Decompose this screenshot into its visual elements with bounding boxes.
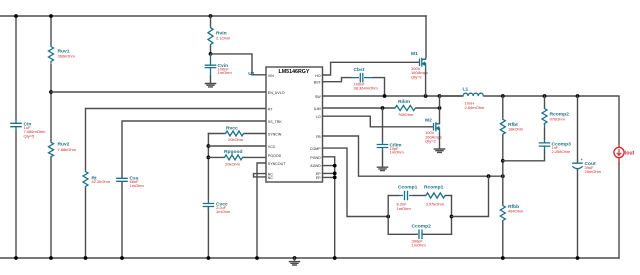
node VOUT / Cout junction	[576, 94, 580, 98]
transistor M2	[425, 118, 442, 144]
svg-text:Ccomp2: Ccomp2	[412, 224, 432, 230]
svg-text:42.2kOhm: 42.2kOhm	[92, 179, 111, 184]
node VOUT / Rcomp2 junction	[543, 94, 547, 98]
wire COMP net	[323, 148, 389, 216]
wire Rfbb to bus	[502, 222, 504, 258]
ground below Cvin	[205, 77, 215, 87]
capacitor Cout	[572, 96, 601, 174]
svg-text:Qty=2: Qty=2	[425, 139, 437, 144]
wire M1 source to SW	[425, 70, 427, 96]
svg-text:484Ohm: 484Ohm	[508, 209, 524, 214]
capacitor Cvcc	[203, 199, 231, 214]
node bottom bus / Css junction	[120, 256, 124, 260]
svg-text:20kOhm: 20kOhm	[225, 162, 241, 167]
node bottom bus / Rfbb junction	[501, 256, 505, 260]
transistor M1	[411, 16, 428, 80]
node top rail / Ruv1 junction	[49, 14, 53, 18]
wire PGND AGND EP rail	[323, 157, 335, 258]
svg-text:Rcomp1: Rcomp1	[424, 185, 444, 191]
wire BST net	[323, 78, 352, 82]
node AGND junction	[333, 164, 337, 168]
node bottom bus / Cout junction	[576, 256, 580, 260]
svg-text:Rvcc: Rvcc	[226, 125, 238, 131]
svg-text:+: +	[581, 157, 584, 162]
resistor Rvcc	[208, 125, 266, 142]
ground below M2	[434, 149, 444, 152]
svg-text:SYNCOUT: SYNCOUT	[268, 162, 286, 166]
wire Cout to bus	[577, 170, 579, 258]
resistor Rfbb	[500, 204, 524, 222]
svg-text:HO: HO	[315, 74, 321, 78]
svg-text:COMP: COMP	[310, 147, 321, 151]
svg-text:1mOhm: 1mOhm	[397, 206, 412, 211]
wire FB net	[323, 136, 503, 176]
svg-text:1mOhm: 1mOhm	[218, 70, 233, 75]
svg-text:2.64mOhm: 2.64mOhm	[465, 105, 485, 110]
node top rail / left rail junction	[14, 14, 18, 18]
wire comp network right branch	[451, 196, 453, 235]
svg-text:Rpgood: Rpgood	[224, 149, 242, 155]
resistor Rpgood	[208, 149, 266, 167]
current source Iout	[614, 144, 635, 164]
svg-text:AGND: AGND	[310, 164, 321, 168]
wire VCC pin feed	[208, 145, 266, 147]
wire comp network top branch left	[388, 195, 398, 197]
svg-text:Qty=2: Qty=2	[411, 75, 423, 80]
svg-text:976Ohm: 976Ohm	[550, 117, 566, 122]
svg-text:7.68kOhm: 7.68kOhm	[58, 147, 77, 152]
wire Cilim drop	[382, 108, 384, 141]
wire Ruv divider rail	[50, 16, 52, 258]
wire NC stubs	[254, 174, 267, 177]
node EP1 junction	[333, 172, 337, 176]
node VOUT / Rfbt junction	[501, 94, 505, 98]
svg-text:360kOhm: 360kOhm	[58, 54, 76, 59]
inductor L1	[440, 87, 485, 111]
capacitor Cvin	[205, 54, 233, 77]
wire comp network left branch	[387, 196, 389, 235]
svg-text:SYNCIN: SYNCIN	[268, 132, 282, 136]
svg-text:768Ohm: 768Ohm	[398, 112, 414, 117]
node comp network right junction	[450, 215, 454, 219]
svg-text:RT: RT	[268, 107, 274, 111]
wire EN_UVLO net	[51, 91, 266, 93]
svg-text:SS_TRK: SS_TRK	[268, 120, 283, 124]
wire BST cap to SW	[374, 78, 385, 96]
resistor Rcomp2	[542, 107, 569, 125]
svg-text:2.258Ohm: 2.258Ohm	[552, 149, 571, 154]
wire ILIM net	[323, 107, 395, 109]
wire VOUT rail	[485, 96, 619, 144]
node FB / divider junction	[501, 174, 505, 178]
wire HO to M1 gate	[323, 62, 419, 75]
svg-text:Rilim: Rilim	[398, 99, 411, 105]
node SW / Cbst junction	[383, 94, 387, 98]
svg-text:1mOhm: 1mOhm	[412, 243, 427, 248]
svg-text:Iout: Iout	[625, 151, 634, 157]
node Rvin / Cvin / VIN junction	[209, 52, 213, 56]
node COMP network left junction	[386, 215, 390, 219]
wire M2 drain to SW	[439, 96, 441, 122]
wire LO to M2 gate	[323, 116, 433, 127]
svg-text:18kOhm: 18kOhm	[508, 126, 524, 131]
svg-text:VCC: VCC	[268, 145, 276, 149]
svg-text:VIN: VIN	[268, 74, 274, 78]
node SW / M1 source junction	[424, 94, 428, 98]
wire FB divider mid	[502, 136, 504, 204]
wire Rilim to M2 drain	[416, 107, 439, 109]
svg-text:2.1Ohm: 2.1Ohm	[216, 36, 231, 41]
svg-text:EN_UVLO: EN_UVLO	[268, 91, 285, 95]
capacitor Cbst	[351, 67, 378, 90]
resistor Ruv2	[49, 141, 77, 158]
resistor Rfbt	[500, 118, 523, 136]
node ILIM / Cilim junction	[381, 106, 385, 110]
wire SW rail	[323, 95, 463, 97]
svg-text:1mOhm: 1mOhm	[216, 209, 231, 214]
resistor Rilim	[394, 99, 416, 117]
capacitor Ccomp2	[412, 224, 432, 248]
wire Rcomp2 drop	[544, 96, 546, 107]
wire Rfbt drop	[502, 96, 504, 118]
node bottom bus / left rail junction	[14, 256, 18, 260]
svg-text:U1: U1	[248, 71, 255, 77]
svg-text:SW: SW	[315, 95, 321, 99]
svg-text:ILIM: ILIM	[314, 107, 321, 111]
op-amp U1 LM5146RGY IC body	[266, 67, 323, 182]
svg-text:Cbst: Cbst	[354, 67, 365, 73]
svg-text:38.364mOhm: 38.364mOhm	[354, 85, 379, 90]
svg-text:M1: M1	[411, 51, 418, 57]
node bottom bus / Cvcc junction	[207, 256, 211, 260]
wire SYNCOUT to ground	[257, 163, 266, 258]
node bottom bus / Ruv2 junction	[49, 256, 53, 260]
wire Iout to bus	[618, 163, 620, 258]
node Rilim / M2 drain junction	[438, 106, 442, 110]
wire Ccomp3 return to FB	[503, 151, 545, 161]
node top rail / Rvin junction	[209, 14, 213, 18]
svg-text:1mOhm: 1mOhm	[130, 183, 145, 188]
node SW / M2 drain junction	[438, 94, 442, 98]
wire top rail VIN	[0, 15, 426, 17]
svg-text:NC: NC	[268, 176, 274, 180]
wire comp network top branch right	[446, 195, 451, 197]
node VCC pin junction	[207, 144, 211, 148]
svg-text:LM5146RGY: LM5146RGY	[279, 69, 310, 75]
svg-text:PGND: PGND	[310, 156, 321, 160]
svg-text:25mOhm: 25mOhm	[585, 169, 602, 174]
node bottom bus / PGND junction	[333, 256, 337, 260]
node Ccomp3 return junction	[501, 159, 505, 163]
svg-text:1mOhm: 1mOhm	[390, 150, 405, 155]
wire VCC rail	[207, 134, 209, 259]
svg-text:3.57kOhm: 3.57kOhm	[426, 202, 445, 207]
ground main bus	[289, 256, 299, 265]
wire RT net	[86, 109, 267, 259]
wire comp network bottom branch	[388, 233, 451, 235]
capacitor Ccomp3	[539, 124, 571, 154]
svg-text:L1: L1	[463, 87, 469, 93]
node EP2 junction	[333, 176, 337, 180]
node FB / comp feed junction	[487, 174, 491, 178]
wire SS_TRK net	[122, 121, 266, 258]
wire M2 source to ground	[439, 134, 441, 149]
resistor Ruv1	[49, 45, 76, 64]
node EN_UVLO divider junction	[49, 90, 53, 94]
svg-text:BST: BST	[314, 81, 322, 85]
svg-text:EP: EP	[316, 176, 321, 180]
resistor Rvin	[208, 16, 231, 54]
svg-text:Ccomp1: Ccomp1	[398, 185, 418, 191]
resistor Rt	[83, 170, 111, 189]
wire bottom ground bus	[0, 257, 619, 259]
node bottom bus / SYNCOUT junction	[255, 256, 259, 260]
svg-text:Qty=5: Qty=5	[24, 133, 36, 138]
wire left input rail	[15, 16, 17, 258]
svg-text:20kOhm: 20kOhm	[228, 137, 244, 142]
node bottom bus / Rt junction	[84, 256, 88, 260]
wire comp to FB feed	[452, 176, 489, 216]
svg-text:M2: M2	[425, 118, 432, 124]
svg-text:PGOOD: PGOOD	[268, 154, 282, 158]
ground below Cilim	[377, 151, 387, 171]
capacitor Cilim	[377, 141, 405, 155]
resistor Rcomp1	[424, 185, 446, 207]
capacitor Css	[116, 175, 144, 188]
capacitor Cin	[10, 119, 46, 139]
capacitor Ccomp1	[397, 185, 418, 212]
svg-text:FB: FB	[316, 135, 321, 139]
wire comp mid	[414, 195, 425, 197]
node PGOOD junction	[207, 156, 211, 160]
wire VIN pin feed	[211, 54, 267, 75]
svg-text:LO: LO	[316, 115, 321, 119]
